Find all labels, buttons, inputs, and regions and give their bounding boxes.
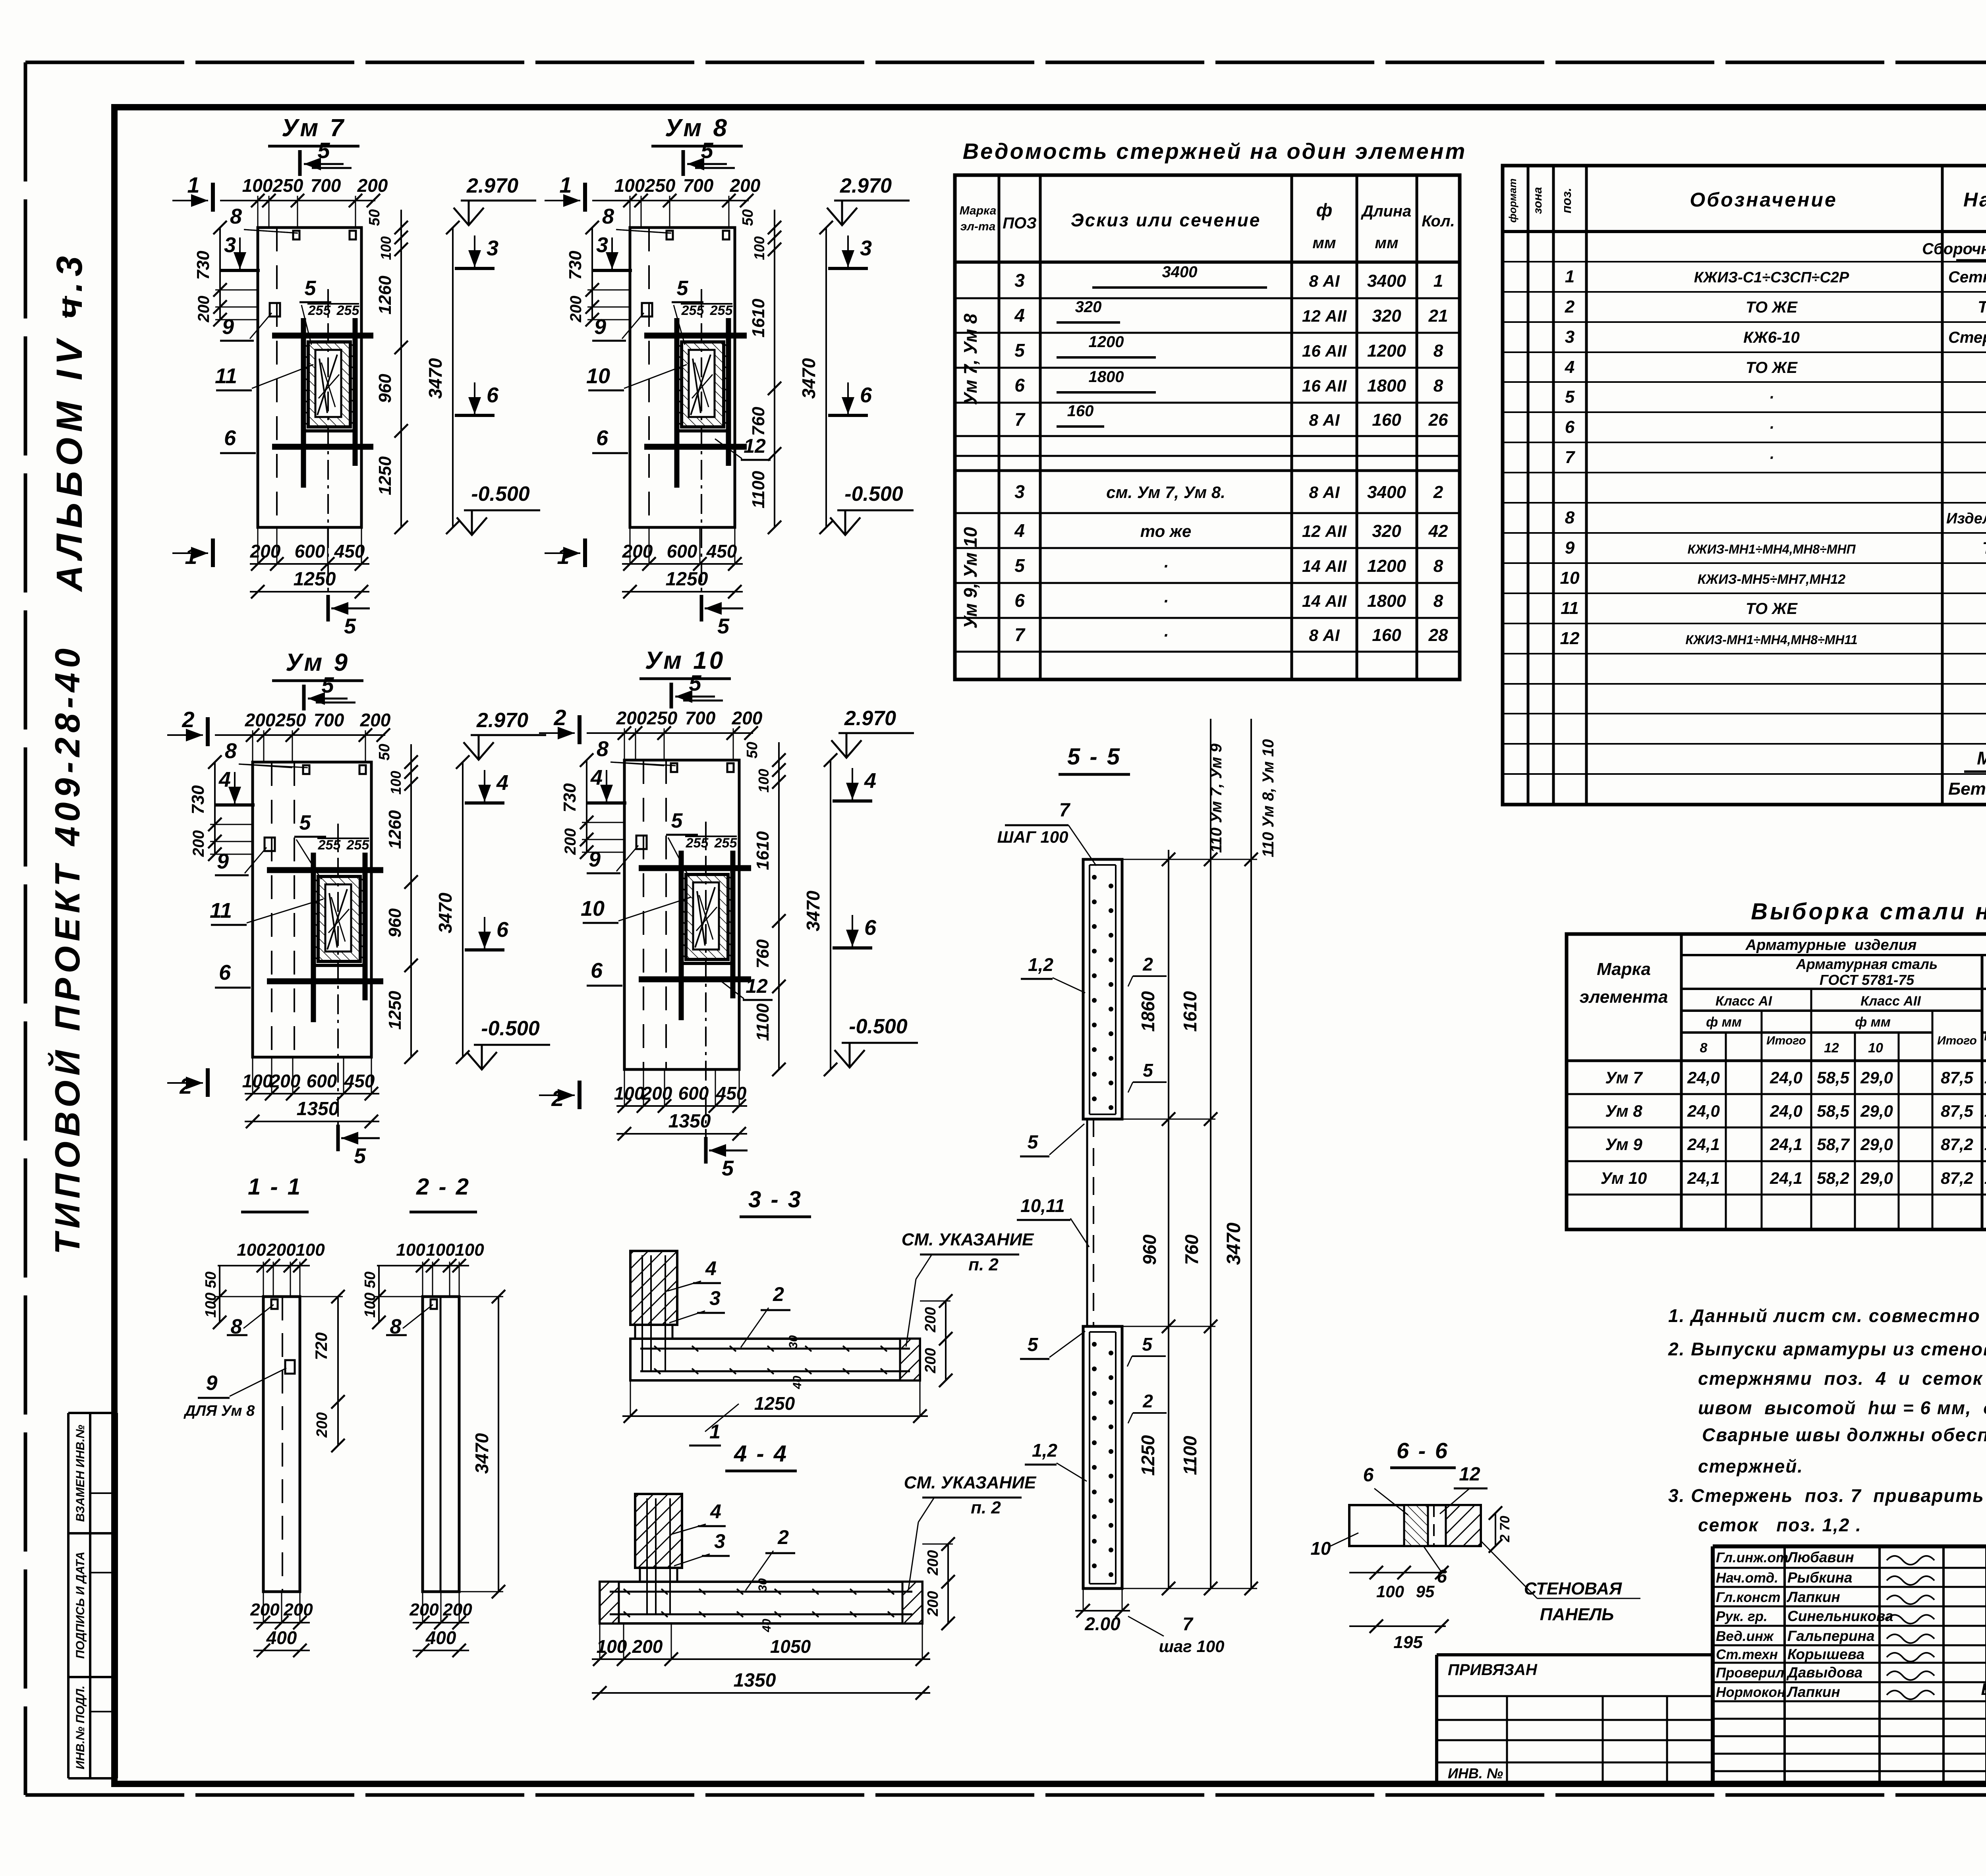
- svg-text:100: 100: [388, 771, 404, 795]
- svg-text:600: 600: [295, 541, 325, 562]
- svg-text:4: 4: [1014, 305, 1025, 326]
- svg-text:6: 6: [496, 918, 509, 942]
- svg-text:1350: 1350: [297, 1098, 339, 1119]
- svg-text:ШАГ 100: ШАГ 100: [997, 828, 1068, 846]
- svg-text:4: 4: [496, 771, 508, 795]
- svg-text:1350: 1350: [734, 1670, 776, 1691]
- svg-text:2.970: 2.970: [466, 174, 518, 197]
- svg-text:мм: мм: [1375, 234, 1398, 252]
- svg-text:8: 8: [1433, 376, 1443, 396]
- svg-text:п. 2: п. 2: [968, 1255, 999, 1274]
- svg-text:5: 5: [1143, 1060, 1153, 1081]
- svg-text:Кол.: Кол.: [1422, 212, 1455, 230]
- svg-text:111,5: 111,5: [1984, 1068, 1986, 1087]
- svg-text:6: 6: [591, 959, 603, 982]
- svg-text:250: 250: [647, 708, 678, 728]
- svg-text:700: 700: [685, 708, 716, 728]
- svg-text:1250: 1250: [666, 569, 708, 590]
- svg-text:24,0: 24,0: [1687, 1102, 1720, 1120]
- svg-text:30: 30: [756, 1578, 769, 1592]
- svg-text:3470: 3470: [798, 358, 819, 399]
- svg-text:200: 200: [250, 541, 281, 562]
- svg-text:КЖИЗ-С1÷С3СП÷С2Р: КЖИЗ-С1÷С3СП÷С2Р: [1694, 269, 1849, 286]
- svg-text:2 70: 2 70: [1497, 1516, 1513, 1542]
- svg-text:7: 7: [1014, 624, 1026, 645]
- svg-text:6: 6: [1014, 375, 1025, 396]
- svg-text:СМ. УКАЗАНИЕ: СМ. УКАЗАНИЕ: [902, 1230, 1034, 1249]
- svg-text:58,7: 58,7: [1817, 1135, 1850, 1154]
- svg-text:СТЕНОВАЯ: СТЕНОВАЯ: [1524, 1579, 1622, 1598]
- svg-text:5: 5: [1028, 1132, 1039, 1153]
- svg-text:3400: 3400: [1367, 271, 1406, 291]
- svg-text:9: 9: [589, 847, 601, 871]
- svg-text:50: 50: [366, 209, 383, 226]
- svg-text:КЖИЗ-МН5÷МН7,МН12: КЖИЗ-МН5÷МН7,МН12: [1698, 572, 1846, 587]
- svg-text:1800: 1800: [1089, 368, 1124, 386]
- svg-text:ИНВ.№ ПОДЛ.: ИНВ.№ ПОДЛ.: [74, 1685, 87, 1769]
- svg-text:100: 100: [426, 1240, 455, 1260]
- svg-text:24,1: 24,1: [1687, 1169, 1720, 1187]
- svg-text:600: 600: [667, 541, 697, 562]
- svg-text:Бетон марки 200: Бетон марки 200: [1948, 779, 1986, 799]
- svg-text:42: 42: [1428, 521, 1448, 541]
- svg-text:200: 200: [616, 708, 647, 728]
- svg-text:Лапкин: Лапкин: [1786, 1684, 1840, 1700]
- svg-text:Арматурная сталь: Арматурная сталь: [1796, 956, 1938, 972]
- svg-text:40: 40: [760, 1619, 773, 1633]
- svg-text:5: 5: [305, 277, 317, 300]
- svg-text:5: 5: [1565, 387, 1575, 407]
- svg-text:9: 9: [217, 849, 229, 873]
- svg-text:ТИПОВОЙ ПРОЕКТ 409-28-40: ТИПОВОЙ ПРОЕКТ 409-28-40: [48, 644, 87, 1255]
- svg-text:160: 160: [1372, 625, 1401, 645]
- svg-text:111,3: 111,3: [1984, 1135, 1986, 1154]
- svg-text:формат: формат: [1507, 178, 1518, 222]
- svg-text:720: 720: [312, 1332, 330, 1360]
- svg-text:6: 6: [596, 426, 609, 450]
- svg-text:стержней.: стержней.: [1698, 1456, 1803, 1476]
- svg-text:5: 5: [1028, 1334, 1039, 1355]
- svg-text:1610: 1610: [753, 831, 773, 870]
- svg-text:255: 255: [308, 303, 331, 318]
- svg-text:Вариант в сборном железобетоне: Вариант в сборном железобетоне: [1981, 1680, 1986, 1698]
- svg-text:3 - 3: 3 - 3: [748, 1187, 802, 1212]
- svg-text:Корышева: Корышева: [1787, 1646, 1864, 1662]
- svg-text:160: 160: [1372, 410, 1401, 430]
- svg-text:10,11: 10,11: [1020, 1195, 1065, 1216]
- svg-text:450: 450: [706, 541, 737, 562]
- svg-text:Наименование: Наименование: [1963, 189, 1986, 211]
- svg-text:4: 4: [864, 769, 876, 793]
- svg-text:п. 2: п. 2: [971, 1498, 1001, 1517]
- svg-text:1: 1: [1433, 271, 1443, 291]
- svg-text:1100: 1100: [1180, 1436, 1200, 1475]
- svg-text:1350: 1350: [668, 1111, 711, 1132]
- svg-text:ф мм: ф мм: [1855, 1015, 1891, 1030]
- svg-text:12 АII: 12 АII: [1302, 522, 1347, 540]
- svg-text:200: 200: [314, 1412, 330, 1438]
- svg-text:Рыбкина: Рыбкина: [1787, 1569, 1852, 1586]
- svg-text:Ум 7: Ум 7: [1605, 1068, 1643, 1087]
- svg-text:5: 5: [1014, 555, 1025, 576]
- svg-text:195: 195: [1393, 1633, 1423, 1652]
- svg-text:50: 50: [744, 742, 761, 759]
- svg-text:5: 5: [677, 277, 689, 300]
- svg-text:100: 100: [242, 175, 273, 196]
- svg-text:1050: 1050: [770, 1636, 811, 1657]
- svg-text:16 АII: 16 АII: [1302, 342, 1347, 360]
- svg-text:87,5: 87,5: [1941, 1102, 1973, 1120]
- svg-text:поз.: поз.: [1559, 188, 1574, 213]
- svg-text:29,0: 29,0: [1860, 1068, 1893, 1087]
- svg-text:3: 3: [1565, 327, 1575, 347]
- svg-text:50: 50: [376, 744, 393, 760]
- svg-text:28: 28: [1428, 625, 1448, 645]
- svg-text:14 АII: 14 АII: [1302, 557, 1347, 575]
- svg-text:·: ·: [1769, 389, 1774, 406]
- svg-text:8 АI: 8 АI: [1309, 626, 1340, 645]
- svg-text:160: 160: [1067, 402, 1094, 420]
- svg-text:-0.500: -0.500: [849, 1015, 908, 1038]
- svg-text:ДЛЯ Ум 8: ДЛЯ Ум 8: [184, 1403, 255, 1419]
- svg-text:8: 8: [1700, 1040, 1708, 1056]
- svg-text:14 АII: 14 АII: [1302, 592, 1347, 610]
- svg-text:6: 6: [1014, 590, 1025, 611]
- svg-text:Марка: Марка: [1597, 959, 1651, 979]
- svg-text:255: 255: [710, 303, 733, 318]
- svg-text:Стержни одиночные: Стержни одиночные: [1948, 329, 1986, 346]
- svg-text:ТО ЖЕ: ТО ЖЕ: [1746, 299, 1798, 316]
- svg-text:2: 2: [553, 705, 566, 730]
- svg-text:320: 320: [1372, 521, 1401, 541]
- svg-text:95: 95: [1416, 1582, 1435, 1601]
- svg-text:Класс АI: Класс АI: [1716, 994, 1773, 1009]
- svg-text:100: 100: [378, 236, 394, 260]
- svg-text:Синельникова: Синельникова: [1787, 1608, 1893, 1624]
- svg-text:1250: 1250: [294, 569, 336, 590]
- svg-text:3: 3: [1014, 481, 1025, 502]
- svg-text:50: 50: [740, 209, 756, 226]
- svg-text:Ведомость стержней на один эле: Ведомость стержней на один элемент: [963, 139, 1467, 164]
- svg-text:760: 760: [753, 939, 773, 969]
- svg-text:4: 4: [1565, 357, 1575, 377]
- svg-text:Ум 9, Ум 10: Ум 9, Ум 10: [960, 527, 981, 629]
- svg-text:100: 100: [614, 175, 645, 196]
- svg-text:12 АII: 12 АII: [1302, 307, 1347, 325]
- svg-text:200: 200: [409, 1600, 439, 1619]
- svg-text:4: 4: [705, 1257, 717, 1280]
- svg-text:960: 960: [1139, 1234, 1160, 1265]
- svg-text:3: 3: [709, 1287, 721, 1309]
- svg-text:Рук. гр.: Рук. гр.: [1716, 1609, 1768, 1624]
- svg-text:Обозначение: Обозначение: [1690, 189, 1837, 211]
- svg-text:100: 100: [1376, 1582, 1404, 1601]
- svg-text:1: 1: [559, 172, 572, 197]
- svg-text:Длина: Длина: [1361, 203, 1412, 220]
- svg-text:ИНВ. №: ИНВ. №: [1448, 1765, 1503, 1781]
- svg-text:2: 2: [1142, 1391, 1153, 1411]
- svg-text:1200: 1200: [1367, 556, 1406, 576]
- svg-text:ТО ЖЕ: ТО ЖЕ: [1746, 600, 1798, 618]
- svg-text:5: 5: [1014, 340, 1025, 361]
- svg-text:9: 9: [206, 1372, 218, 1395]
- svg-text:5: 5: [1142, 1334, 1153, 1355]
- svg-text:Ум 9: Ум 9: [286, 649, 350, 676]
- svg-text:200: 200: [266, 1240, 296, 1260]
- svg-text:ПРИВЯЗАН: ПРИВЯЗАН: [1448, 1661, 1538, 1679]
- svg-text:10: 10: [586, 364, 610, 388]
- svg-text:3: 3: [860, 236, 872, 260]
- svg-text:100: 100: [455, 1240, 484, 1260]
- svg-text:730: 730: [560, 783, 580, 813]
- svg-text:Проверил: Проверил: [1716, 1665, 1784, 1681]
- svg-text:Ум 9: Ум 9: [1605, 1135, 1642, 1154]
- svg-text:450: 450: [334, 541, 365, 562]
- svg-text:8: 8: [597, 737, 609, 761]
- svg-text:-0.500: -0.500: [481, 1017, 540, 1040]
- svg-text:4: 4: [1014, 520, 1025, 541]
- svg-text:100: 100: [597, 1636, 627, 1657]
- svg-text:3470: 3470: [435, 892, 456, 933]
- svg-text:700: 700: [314, 710, 344, 730]
- svg-text:5: 5: [317, 138, 330, 163]
- svg-text:Итого: Итого: [1766, 1034, 1806, 1047]
- svg-text:250: 250: [275, 710, 306, 730]
- svg-text:12: 12: [1459, 1464, 1480, 1485]
- svg-text:Выборка стали на один элемент,: Выборка стали на один элемент, кг: [1751, 899, 1986, 924]
- svg-text:400: 400: [425, 1627, 456, 1648]
- svg-text:-0.500: -0.500: [471, 483, 530, 506]
- svg-text:Сетка арматурная С16: Сетка арматурная С16: [1948, 268, 1986, 286]
- svg-text:200: 200: [732, 708, 763, 728]
- svg-text:760: 760: [1181, 1234, 1202, 1265]
- svg-text:2.00: 2.00: [1084, 1614, 1121, 1634]
- svg-text:600: 600: [307, 1071, 337, 1091]
- svg-text:Ум 8: Ум 8: [1605, 1102, 1642, 1120]
- svg-text:255: 255: [346, 838, 370, 853]
- svg-text:3470: 3470: [425, 358, 446, 399]
- svg-text:6: 6: [487, 383, 499, 407]
- svg-text:эл-та: эл-та: [960, 220, 996, 233]
- svg-text:8: 8: [225, 739, 237, 763]
- svg-text:Лапкин: Лапкин: [1786, 1589, 1840, 1605]
- svg-text:600: 600: [678, 1083, 709, 1104]
- svg-text:ПОДПИСЬ И ДАТА: ПОДПИСЬ И ДАТА: [74, 1552, 87, 1659]
- svg-text:7: 7: [1014, 409, 1026, 430]
- svg-text:СМ. УКАЗАНИЕ: СМ. УКАЗАНИЕ: [904, 1473, 1037, 1492]
- svg-text:700: 700: [311, 175, 341, 196]
- svg-text:4: 4: [710, 1500, 721, 1523]
- svg-text:960: 960: [375, 374, 395, 403]
- svg-text:1260: 1260: [375, 276, 395, 315]
- svg-text:см. Ум 7, Ум 8.: см. Ум 7, Ум 8.: [1106, 483, 1225, 502]
- svg-text:Ум 7: Ум 7: [282, 114, 346, 142]
- svg-text:1. Данный лист см. совместно с: 1. Данный лист см. совместно с листом КЖ…: [1668, 1305, 1986, 1326]
- svg-text:24,1: 24,1: [1687, 1135, 1720, 1154]
- svg-text:12: 12: [746, 975, 768, 997]
- svg-text:Гальперина: Гальперина: [1787, 1628, 1875, 1644]
- svg-text:8 АI: 8 АI: [1309, 411, 1340, 429]
- svg-text:Любавин: Любавин: [1786, 1549, 1854, 1565]
- svg-text:100 50: 100 50: [362, 1272, 379, 1318]
- svg-text:Марка: Марка: [960, 204, 997, 217]
- svg-text:Нач.отд.: Нач.отд.: [1716, 1570, 1778, 1586]
- svg-text:200: 200: [245, 710, 276, 730]
- svg-text:10: 10: [581, 897, 605, 921]
- svg-text:58,5: 58,5: [1817, 1068, 1849, 1087]
- svg-text:200: 200: [925, 1550, 941, 1575]
- svg-text:58,2: 58,2: [1817, 1169, 1849, 1187]
- svg-text:1: 1: [1565, 267, 1575, 286]
- svg-text:6: 6: [860, 383, 872, 407]
- svg-text:2: 2: [182, 707, 194, 732]
- svg-text:10: 10: [1310, 1538, 1331, 1559]
- svg-text:40: 40: [791, 1376, 804, 1390]
- svg-text:1250: 1250: [375, 456, 395, 495]
- svg-text:100: 100: [396, 1240, 425, 1260]
- svg-text:24,1: 24,1: [1770, 1169, 1802, 1187]
- svg-text:5: 5: [689, 670, 701, 695]
- svg-text:5: 5: [722, 1156, 734, 1180]
- svg-text:200: 200: [730, 175, 761, 196]
- svg-text:5: 5: [299, 811, 311, 834]
- svg-text:29,0: 29,0: [1860, 1102, 1893, 1120]
- svg-text:3: 3: [714, 1530, 725, 1552]
- svg-text:200: 200: [283, 1600, 313, 1619]
- svg-text:2: 2: [1565, 297, 1575, 317]
- svg-text:1100: 1100: [753, 1003, 773, 1041]
- svg-text:8: 8: [1433, 341, 1443, 361]
- svg-text:КЖИЗ-МН1÷МН4,МН8÷МНП: КЖИЗ-МН1÷МН4,МН8÷МНП: [1687, 542, 1856, 556]
- svg-text:2: 2: [1142, 954, 1153, 975]
- svg-text:КЖ6-10: КЖ6-10: [1743, 329, 1800, 346]
- svg-text:100 50: 100 50: [203, 1272, 219, 1318]
- svg-text:100: 100: [755, 769, 772, 793]
- svg-text:16 АII: 16 АII: [1302, 376, 1347, 395]
- svg-text:2.970: 2.970: [840, 174, 892, 197]
- svg-text:6: 6: [1565, 417, 1575, 437]
- svg-text:Итого: Итого: [1984, 1030, 1986, 1043]
- svg-text:200: 200: [622, 541, 653, 562]
- svg-text:3: 3: [487, 236, 498, 260]
- svg-text:1800: 1800: [1367, 591, 1406, 611]
- svg-text:200: 200: [567, 296, 585, 323]
- svg-text:1 - 1: 1 - 1: [248, 1174, 302, 1200]
- svg-text:9: 9: [222, 315, 234, 339]
- svg-text:200: 200: [632, 1636, 663, 1657]
- svg-text:200: 200: [562, 828, 579, 855]
- svg-text:200: 200: [357, 175, 388, 196]
- svg-text:Нормокон: Нормокон: [1716, 1685, 1785, 1700]
- svg-text:1,2: 1,2: [1028, 954, 1053, 975]
- svg-text:12: 12: [744, 435, 766, 457]
- svg-text:Гл.инж.от: Гл.инж.от: [1716, 1550, 1788, 1565]
- svg-text:111,5: 111,5: [1984, 1102, 1986, 1120]
- svg-text:960: 960: [385, 908, 405, 938]
- svg-text:8 АI: 8 АI: [1309, 272, 1340, 290]
- svg-text:9: 9: [1565, 538, 1575, 558]
- svg-text:Арматурные изделия: Арматурные изделия: [1745, 937, 1917, 953]
- svg-text:Гл.конст: Гл.конст: [1716, 1590, 1781, 1605]
- svg-text:2: 2: [773, 1283, 784, 1305]
- svg-text:Ум 10: Ум 10: [1601, 1169, 1647, 1187]
- svg-text:12: 12: [1824, 1040, 1839, 1056]
- svg-text:29,0: 29,0: [1860, 1135, 1893, 1154]
- svg-text:4 - 4: 4 - 4: [734, 1441, 788, 1467]
- svg-text:24,0: 24,0: [1770, 1068, 1802, 1087]
- svg-text:3470: 3470: [803, 890, 823, 931]
- svg-text:110 Ум 8, Ум 10: 110 Ум 8, Ум 10: [1260, 739, 1277, 857]
- svg-text:200: 200: [925, 1591, 941, 1616]
- svg-text:6: 6: [224, 426, 236, 450]
- svg-text:5: 5: [701, 138, 713, 163]
- svg-text:Сварные швы должны обеспечить: Сварные швы должны обеспечить равнопрочн…: [1702, 1424, 1986, 1445]
- svg-text:100: 100: [296, 1240, 325, 1260]
- svg-text:то же: то же: [1140, 522, 1191, 540]
- svg-text:7: 7: [1059, 800, 1071, 821]
- svg-text:110 Ум 7, Ум 9: 110 Ум 7, Ум 9: [1207, 743, 1225, 853]
- svg-text:зона: зона: [1531, 187, 1544, 214]
- svg-text:Ум 10: Ум 10: [645, 647, 726, 674]
- svg-text:8 АI: 8 АI: [1309, 483, 1340, 502]
- svg-text:1250: 1250: [754, 1393, 795, 1414]
- svg-text:8: 8: [1433, 556, 1443, 576]
- svg-text:1250: 1250: [1138, 1435, 1158, 1476]
- svg-text:11: 11: [215, 364, 237, 388]
- svg-text:сеток поз. 1,2 .: сеток поз. 1,2 .: [1698, 1515, 1862, 1535]
- svg-text:24,0: 24,0: [1770, 1102, 1802, 1120]
- svg-text:730: 730: [193, 251, 213, 280]
- svg-text:8: 8: [1565, 508, 1575, 527]
- svg-text:200: 200: [442, 1600, 472, 1619]
- svg-text:1800: 1800: [1367, 376, 1406, 396]
- svg-text:200: 200: [195, 296, 213, 323]
- svg-text:3470: 3470: [1223, 1222, 1244, 1265]
- svg-text:12: 12: [1560, 629, 1580, 648]
- svg-text:8: 8: [1433, 591, 1443, 611]
- svg-text:2.970: 2.970: [476, 709, 528, 732]
- svg-text:1100: 1100: [749, 471, 768, 508]
- svg-text:2: 2: [1433, 483, 1443, 502]
- svg-text:АЛЬБОМ IV ч.3: АЛЬБОМ IV ч.3: [49, 251, 90, 592]
- svg-text:100: 100: [237, 1240, 266, 1260]
- svg-text:Вед.инж: Вед.инж: [1716, 1629, 1774, 1644]
- svg-text:·: ·: [1769, 419, 1774, 436]
- svg-text:87,5: 87,5: [1941, 1068, 1973, 1087]
- svg-text:Ум 7, Ум 8: Ум 7, Ум 8: [960, 313, 981, 405]
- svg-text:3. Стержень поз. 7 приварить: 3. Стержень поз. 7 приварить к горизонта…: [1668, 1485, 1986, 1506]
- svg-text:6 - 6: 6 - 6: [1397, 1438, 1449, 1463]
- svg-text:6: 6: [1363, 1465, 1374, 1486]
- svg-text:Давыдова: Давыдова: [1786, 1664, 1862, 1681]
- svg-text:1250: 1250: [385, 991, 405, 1030]
- svg-text:250: 250: [272, 175, 303, 196]
- svg-text:1200: 1200: [1367, 341, 1406, 361]
- svg-text:2. Выпуски арматуры из стеновы: 2. Выпуски арматуры из стеновых панелей …: [1668, 1339, 1986, 1359]
- svg-text:ПОЗ: ПОЗ: [1003, 214, 1037, 232]
- svg-text:200: 200: [360, 710, 391, 730]
- svg-text:11: 11: [210, 899, 232, 923]
- svg-text:400: 400: [266, 1627, 297, 1648]
- svg-text:Сборочные единицы и детали: Сборочные единицы и детали: [1922, 240, 1986, 258]
- svg-text:9: 9: [594, 315, 606, 339]
- svg-text:Итого: Итого: [1937, 1034, 1977, 1047]
- svg-text:255: 255: [681, 303, 705, 318]
- svg-text:5: 5: [717, 614, 730, 638]
- svg-text:ТО ЖЕ: ТО ЖЕ: [1746, 359, 1798, 376]
- svg-text:255: 255: [714, 836, 738, 851]
- svg-text:730: 730: [566, 251, 585, 280]
